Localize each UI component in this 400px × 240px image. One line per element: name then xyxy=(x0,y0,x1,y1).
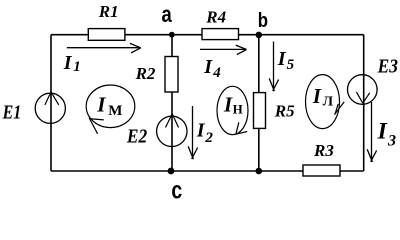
svg-text:R4: R4 xyxy=(205,8,226,27)
voltage source E1 xyxy=(35,93,65,123)
svg-text:I: I xyxy=(377,119,388,145)
svg-text:I: I xyxy=(203,56,213,78)
svg-text:Н: Н xyxy=(233,102,243,117)
junction node below b xyxy=(255,168,262,175)
resistor R3 xyxy=(303,165,340,176)
voltage source E3 xyxy=(348,75,378,105)
svg-text:5: 5 xyxy=(287,57,295,73)
wire top xyxy=(51,34,364,36)
svg-text:Л: Л xyxy=(323,94,334,109)
svg-text:E3: E3 xyxy=(377,55,398,78)
current arrow I2 xyxy=(188,106,197,159)
svg-text:b: b xyxy=(258,9,268,32)
svg-text:I: I xyxy=(277,48,287,70)
svg-text:4: 4 xyxy=(212,65,221,81)
wire bottom xyxy=(51,170,364,172)
wire branch b down xyxy=(258,35,260,171)
E2 arrow (up) xyxy=(166,114,179,128)
svg-text:R5: R5 xyxy=(274,102,295,121)
svg-text:R1: R1 xyxy=(98,2,119,21)
resistor R4 xyxy=(202,29,239,40)
svg-text:1: 1 xyxy=(73,59,81,75)
svg-text:I: I xyxy=(63,52,73,74)
loop current ellipse Im xyxy=(86,85,135,134)
loop current ellipse In xyxy=(217,86,248,134)
node a xyxy=(169,32,175,38)
svg-text:I: I xyxy=(223,93,233,117)
current arrow I4 xyxy=(200,45,247,55)
svg-text:I: I xyxy=(96,93,106,117)
resistor R5 xyxy=(254,93,266,129)
svg-text:2: 2 xyxy=(204,130,213,146)
svg-text:I: I xyxy=(312,84,322,108)
svg-text:3: 3 xyxy=(387,132,396,149)
node b xyxy=(255,32,262,39)
E3 arrow (down) xyxy=(356,92,369,103)
wire right xyxy=(363,35,365,171)
wire left xyxy=(50,35,52,171)
svg-text:E2: E2 xyxy=(126,125,148,148)
voltage source E2 xyxy=(157,116,187,146)
E1 arrow (up) xyxy=(45,92,59,105)
node c xyxy=(168,168,175,175)
svg-text:I: I xyxy=(196,119,206,141)
current arrow I5 xyxy=(269,42,278,92)
svg-text:R2: R2 xyxy=(135,64,156,83)
svg-text:a: a xyxy=(162,2,173,27)
resistor R2 xyxy=(165,57,178,93)
svg-text:R3: R3 xyxy=(313,141,334,160)
svg-text:c: c xyxy=(171,176,182,201)
current arrow I3 xyxy=(367,102,376,162)
svg-text:М: М xyxy=(108,103,122,119)
svg-text:E1: E1 xyxy=(2,101,22,123)
current arrow I1 xyxy=(67,43,141,53)
loop current ellipse Il xyxy=(306,75,345,129)
resistor R1 xyxy=(88,29,125,41)
wire middle branch a-c xyxy=(171,35,173,171)
